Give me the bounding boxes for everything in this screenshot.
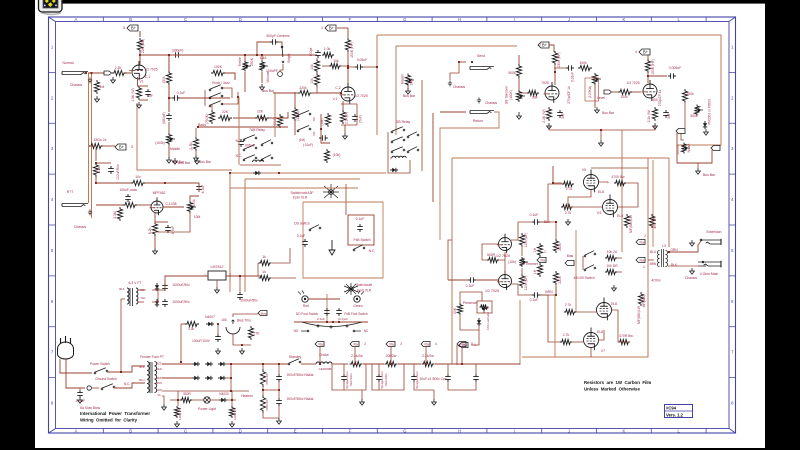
wire to send jack [459,61,466,63]
wire drop join [263,389,279,391]
wire [121,299,125,372]
terminal lug Ra ps4 [421,342,430,347]
ground heater a [175,421,180,427]
svg-text:3: 3 [400,342,402,346]
resistor R31 150K HF [645,59,650,73]
wire grid loop top [552,166,554,183]
title block [665,405,693,418]
wire to fet gate [137,204,151,206]
potentiometer noise [681,143,686,154]
svg-text:1000uF/50v: 1000uF/50v [172,300,190,304]
wire relay loop [388,155,410,173]
junction loop [376,66,378,68]
wire loop2 b [379,364,404,390]
resistor R29 2.2K [546,107,551,121]
triode V3 1/2 7025 [545,86,559,100]
wire relay rail [230,172,386,174]
ground level [595,107,600,113]
inductor PT primary [147,362,149,393]
wire sw out [107,366,145,372]
svg-text:R?T: R?T [67,190,73,194]
resistor R39 220k [553,239,558,253]
svg-text:600pf: 600pf [309,48,313,57]
junction [461,363,463,365]
svg-text:BLU: BLU [650,250,657,254]
svg-text:Power Light: Power Light [198,407,216,411]
svg-text:150K (HF): 150K (HF) [651,59,655,75]
wire pi out top [540,184,562,222]
svg-text:2.2K(W): 2.2K(W) [345,112,349,124]
wire cap dn c [413,364,415,374]
resistor R60 2700 2W [260,369,265,387]
svg-text:K: K [623,17,626,22]
resistor R10 270k [292,107,297,121]
junction [239,275,241,277]
resistor R61 2700 2W b [260,395,265,413]
resistor R63 1k b [259,275,272,280]
svg-text:550R: 550R [183,392,191,396]
ground diode [704,129,709,135]
wire pi out [540,285,556,295]
svg-text:4: 4 [635,50,637,54]
capacitor 70uF b [376,374,382,382]
junction [120,371,122,373]
wire gnd sw out [114,383,145,388]
wire reverb feed L [137,103,232,170]
svg-text:GB Takeover: GB Takeover [505,85,509,104]
svg-text:2A: 2A [157,393,160,397]
svg-text:8.2k: 8.2k [148,227,152,234]
svg-text:V7: V7 [601,349,605,353]
box regulator LM7812 [208,271,226,280]
wire cath d [590,348,592,357]
diode D6 [218,377,226,379]
wire fet drain [163,206,184,208]
wire cap gnd b [378,382,380,390]
svg-text:(.01uF): (.01uF) [303,143,313,147]
svg-text:N.C.: N.C. [369,249,376,253]
ground [167,157,172,163]
svg-text:3: 3 [131,145,133,149]
wire bright top [278,42,282,46]
resistor R35 110k CF [519,233,524,247]
diode D5 [205,377,213,379]
svg-text:3uF: 3uF [667,113,671,119]
svg-text:Ra: Ra [461,343,465,347]
svg-text:1MA: 1MA [260,56,268,60]
svg-text:GB Relay: GB Relay [396,120,411,124]
diode presence [477,318,481,326]
wire can gnd [448,382,476,390]
svg-text:(0.1)uF: (0.1)uF [338,317,348,321]
svg-text:Fender Twin PT: Fender Twin PT [140,355,164,359]
wire to choke [301,363,316,365]
capacitor 70uF a [341,374,347,382]
terminal lug Ra 2 OT [636,240,645,245]
capacitor 30uF b [473,374,479,382]
svg-text:10v: 10v [135,175,141,179]
ground dropper [277,418,282,424]
svg-text:10k: 10k [310,64,314,70]
svg-text:C,2: C,2 [335,86,340,90]
svg-text:Ra: Ra [640,259,644,263]
svg-text:(100KA): (100KA) [588,86,592,98]
switch DD [309,229,311,231]
wire plate c [612,310,630,342]
wire cap dn a [343,364,345,374]
svg-text:0.01uF: 0.01uF [571,72,575,82]
svg-text:RED: RED [156,362,162,366]
connector XLR A3F [323,184,339,198]
resistor R20 1.0k [322,52,334,57]
svg-text:100k: 100k [192,199,196,207]
wire bias rail [181,323,185,325]
svg-text:MF(880): MF(880) [642,295,646,308]
svg-text:Bass: Bass [198,123,206,127]
wire choke out [332,363,348,365]
inductor relay coil 7AB [252,160,263,162]
wire sec to diodes [162,363,192,365]
svg-text:B+: B+ [119,145,125,150]
wire 1k out a [272,248,290,263]
svg-text:1/2 7025: 1/2 7025 [144,68,157,72]
svg-text:500k: 500k [690,114,698,118]
ruler ticks and letters [49,17,736,434]
svg-text:2.2k/2w: 2.2k/2w [422,354,434,358]
resistor R44 MF680 [624,214,629,228]
resistor R57 2.2k/2w [350,361,363,366]
junction input [91,72,93,74]
svg-text:#C94: #C94 [666,406,677,411]
resistor R51 470R Bw [618,339,630,344]
potentiometer GB Takeover 100K [516,90,521,102]
junction v2 grid [340,92,342,94]
resistor R12 1.5k [193,137,198,151]
wire loop1 b [344,364,366,390]
svg-text:LM7812: LM7812 [211,265,224,269]
svg-text:0.1uF: 0.1uF [466,284,475,288]
switch [243,159,245,161]
diode relay [390,169,398,171]
wire 500k up [518,55,520,64]
svg-text:1.5K (W): 1.5K (W) [131,88,135,101]
resistor R42 4700 Bw [614,180,626,185]
wire gb relay [387,132,389,155]
wire cap gnd c [414,382,434,390]
wire level dn [594,85,596,108]
svg-text:1/2 7025: 1/2 7025 [354,94,367,98]
capacitor 0.1uF fsb [357,224,363,232]
wire reg gnd [216,280,218,287]
wire heater rail [162,390,249,392]
svg-text:1/2 7025: 1/2 7025 [626,81,639,85]
triode V5a 1/2 7025 [499,238,512,251]
svg-text:7AB Relay: 7AB Relay [249,128,265,132]
capacitor 0.1uF pi2 [532,292,540,298]
junction [319,363,321,365]
svg-text:EL8: EL8 [598,190,604,194]
terminal lug Ra ps5 [457,342,466,347]
svg-text:2: 2 [539,43,541,47]
svg-text:PM2003 or F2003: PM2003 or F2003 [708,99,712,125]
svg-text:V1: V1 [139,80,143,84]
svg-text:(330pF): (330pF) [172,49,184,53]
wire bass rail [198,126,288,128]
switch footswitch arc [302,322,362,327]
resistor R49 2.7k c [564,309,576,314]
svg-text:FsB Foot Switch: FsB Foot Switch [344,312,367,316]
capacitor 5uF bypass [145,89,151,97]
wire drop c [278,364,280,374]
svg-text:500k: 500k [508,71,516,75]
capacitor 600pf [315,50,321,58]
svg-text:V,5: V,5 [597,211,602,215]
svg-text:100uF-mda: 100uF-mda [119,188,136,192]
switch [391,141,393,143]
chassis main [690,268,695,274]
wire heat dn1 [177,391,179,406]
chassis ground 2 [88,210,92,215]
svg-text:(1M): (1M) [299,138,306,142]
wire slope out [180,97,230,99]
svg-text:C: C [184,428,187,433]
inductor [392,156,406,158]
wire rect drop [230,364,232,391]
resistor R45 10k 2A [605,255,617,260]
wire cap dn d [447,364,449,374]
capacitor .01uF [319,135,328,141]
junction treble [244,54,246,56]
svg-text:Bus Bar: Bus Bar [602,111,615,115]
wire plate [139,52,141,65]
potentiometer Treble 250K [242,61,247,72]
wire treble top [244,55,246,61]
resistor R1 2.2k [112,70,126,75]
wire g3 [576,311,596,313]
wire g4 [572,341,583,343]
capacitor 0.1uF fs1 [324,308,330,316]
svg-text:BLK: BLK [671,263,678,267]
svg-text:(10k): (10k) [333,153,341,157]
wire pot dn [155,213,190,232]
svg-text:5uF: 5uF [147,94,153,98]
wire grid riser lower [575,230,577,312]
svg-text:Bus Bar: Bus Bar [262,89,275,93]
capacitor 500pF ceramic [270,39,278,45]
svg-text:NC: NC [364,329,369,333]
wire g2 [684,102,686,128]
svg-text:470R Bw: 470R Bw [619,334,633,338]
svg-text:1N4 Lamtube: 1N4 Lamtube [486,312,490,330]
fuse [87,386,91,390]
svg-text:A: A [75,17,78,22]
svg-text:1: 1 [321,26,323,30]
svg-text:GRN: GRN [156,388,162,392]
svg-text:0.1uF: 0.1uF [530,298,539,302]
ground gate [111,77,116,83]
wire src join [155,221,168,223]
svg-text:10k: 10k [221,318,227,322]
capacitor 3uF [557,110,563,118]
wire fet mid2 [96,182,111,184]
wire return [440,111,466,113]
wire reg out [226,275,262,277]
wire jack to fet [96,204,123,206]
svg-text:0.1uF: 0.1uF [297,234,305,238]
AC plug [58,342,74,359]
resistor R26 500k [516,64,521,78]
chassis gnd send [448,81,452,86]
resistor R64 20K [457,303,462,315]
svg-text:1MA: 1MA [410,78,414,86]
junction [180,361,182,363]
svg-text:1M: 1M [100,85,105,89]
svg-text:L3: L3 [662,244,666,248]
svg-text:110k (CF): 110k (CF) [524,276,528,291]
resistor R11 750K [209,110,214,124]
svg-text:B+: B+ [131,26,137,31]
svg-text:Heaters: Heaters [241,394,253,398]
svg-text:Bus Bar: Bus Bar [703,173,716,177]
ground v3 [547,123,552,129]
svg-text:270p/CF 1k: 270p/CF 1k [567,86,571,104]
wire loop to output [452,157,669,159]
potentiometer 500k [694,105,699,116]
svg-text:110k (CF): 110k (CF) [524,233,528,248]
svg-text:1H: 1H [533,247,537,252]
junction [278,389,280,391]
svg-text:150k: 150k [162,76,166,84]
svg-text:2.7k: 2.7k [565,303,572,307]
ground arrow big [329,240,335,255]
svg-text:A: A [75,428,78,433]
switch [584,255,586,257]
power tube V5 EL84 [584,175,599,190]
resistor R36 110k CF [519,274,524,288]
svg-text:R Trimmer: R Trimmer [522,262,539,266]
svg-text:220k: 220k [299,86,307,90]
wire heat 2 [192,399,204,401]
svg-text:1/2 7025: 1/2 7025 [485,289,499,293]
junction [647,75,649,77]
wire 270k top [294,92,296,107]
svg-text:0.05uF: 0.05uF [357,58,368,62]
wire heat 3 [210,399,219,401]
svg-text:Bus Bar: Bus Bar [403,94,416,98]
svg-text:B+: B+ [329,26,335,31]
svg-text:6.3 V FT: 6.3 V FT [128,281,141,285]
switch cluster channel [297,115,299,117]
svg-text:E: E [294,17,297,22]
capacitor 100uF/100V [215,334,221,342]
wire plate rail long [140,54,317,56]
svg-text:2700 2W: 2700 2W [265,373,269,385]
svg-text:1H: 1H [533,269,537,274]
wire fet source [154,213,156,223]
wire B+ to plate resistor [139,31,141,37]
wire ft a [138,289,144,291]
svg-text:0.005uF: 0.005uF [669,66,681,70]
lamp pilot [204,397,210,403]
wire cap to loop [363,66,377,68]
svg-text:Extension: Extension [707,230,722,234]
wire to 10v res [96,182,131,184]
svg-text:Green: Green [353,304,362,308]
wire fb dn [317,86,330,93]
inner border frame [56,22,730,429]
resistor R48 4700 1W [649,214,654,228]
wire outer loop top-right [377,35,721,145]
svg-text:5: 5 [123,26,125,30]
wire presence lug dn [456,345,458,365]
B+ flag 4 [639,49,650,55]
B+ flag 1 [325,25,336,31]
wire pi loop dn [554,295,556,357]
capacitor 0.1uF slope [172,95,180,101]
wire B+ distribution [396,45,517,47]
svg-text:BLK: BLK [139,365,144,369]
wire jack to gate [88,72,104,74]
svg-text:Bias: Bias [261,312,267,316]
switch [209,89,211,91]
resistor R50 2.7k d [560,339,572,344]
wire reg in [165,276,208,283]
potentiometer Bias Trim 10k [226,327,240,334]
svg-text:Switchcraft A3F: Switchcraft A3F [291,191,314,195]
wire pt gnd lead [162,396,164,404]
svg-text:1: 1 [544,250,546,254]
wire ps b [398,363,421,365]
junction [231,399,233,401]
capacitor 0.1uF dd [302,239,308,247]
svg-text:Chassis: Chassis [485,101,497,105]
wire middle bottom [168,145,170,158]
switch [261,159,263,161]
lamp Red LED [302,296,308,302]
svg-text:220k: 220k [558,276,562,284]
wire rj1 [222,88,232,98]
capacitor 1000uF c [237,292,243,300]
wire main jack run [668,265,698,267]
svg-text:C,1: C,1 [145,75,150,79]
wire pi plate b [540,222,556,239]
ground caps b [432,399,437,405]
svg-text:Red: Red [303,304,309,308]
wire plate b [618,183,638,207]
transistor Q1 MPS452 FET [151,201,163,213]
wire sw o2 [617,271,622,273]
wire lug to OT [648,259,654,261]
ground master [406,88,411,94]
jack J4 Return [470,111,494,114]
wire 750k top [211,104,213,110]
wire 500k dn [518,78,520,90]
wire cath rail gnd [600,130,602,140]
svg-text:BRN: BRN [545,290,553,294]
ground cathode rail [599,140,604,146]
wire OT feed [668,158,670,247]
svg-text:Bright: Bright [287,54,291,63]
wire r13 down [95,148,97,161]
resistor R13 100uF 2x [89,143,103,148]
svg-text:(10k): (10k) [508,260,516,264]
junction cath rail [600,129,602,131]
wire 1.5k gnd [195,151,197,155]
switch [261,144,263,146]
potentiometer Middle 100k [166,133,171,145]
ground cathode [137,102,142,108]
potentiometer 2k presence [480,304,489,309]
